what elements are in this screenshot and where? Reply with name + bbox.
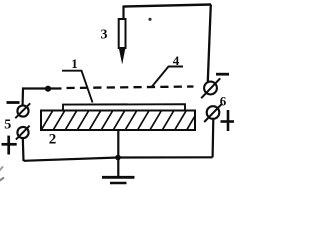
wire top horizontal from needle to right side: [124, 5, 212, 7]
wire right vertical down to terminal 6 upper jack: [208, 5, 211, 82]
terminal 5 upper jack: [17, 105, 28, 116]
dashed line 4 (field/wire path): [67, 87, 194, 89]
wire short vertical into needle holder: [122, 6, 124, 20]
terminal 5 lower jack: [17, 127, 28, 138]
node junction at ground: [115, 155, 121, 161]
svg-text:1: 1: [71, 56, 78, 71]
bottom rail wire: [24, 157, 213, 161]
thin top plate 1: [63, 104, 185, 110]
terminal 6 lower jack: [207, 106, 220, 119]
plus sign at terminal 5: [2, 143, 17, 146]
svg-text:5: 5: [4, 118, 11, 133]
wire from terminal 5 lower jack to bottom rail: [22, 138, 25, 161]
node junction dot on upper wire: [45, 86, 51, 92]
dielectric plate 2 (hatched): [41, 111, 195, 131]
ground: [102, 176, 135, 179]
corona needle electrode 3 (tip): [119, 48, 126, 65]
svg-text:2: 2: [49, 132, 57, 148]
plus sign at terminal 6: [221, 120, 235, 123]
wire from plate 2 down to ground: [117, 131, 119, 177]
corona needle electrode 3 (holder): [119, 19, 126, 48]
wire left vertical up from terminal 5 upper jack: [23, 89, 62, 106]
speck: [148, 18, 151, 21]
edge scan marks: [0, 167, 3, 172]
svg-text:3: 3: [101, 28, 108, 43]
minus sign at terminal 5: [7, 101, 20, 104]
minus sign at terminal 6: [216, 73, 229, 76]
terminal 6 upper jack: [204, 82, 217, 95]
wire from lower jack down to bottom rail: [212, 119, 215, 158]
